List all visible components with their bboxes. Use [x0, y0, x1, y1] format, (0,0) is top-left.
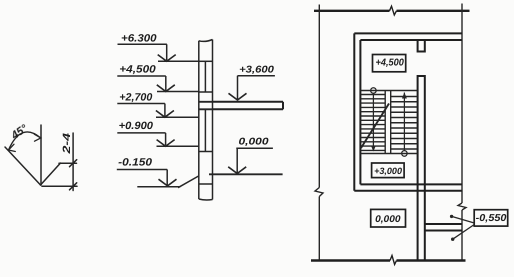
svg-text:+0.900: +0.900 [119, 120, 154, 132]
top wall outer line [354, 32, 462, 34]
arc arrowhead right [34, 134, 41, 141]
svg-text:0,000: 0,000 [239, 137, 270, 148]
stair direction line right flight [402, 93, 408, 157]
svg-text:+4,500: +4,500 [376, 58, 405, 69]
level mark +2.700 [117, 104, 199, 118]
wall tick at first floor [199, 151, 213, 153]
svg-text:-0,550: -0,550 [476, 213, 507, 224]
wall bottom cut edge [199, 199, 213, 200]
level mark +6.300 [118, 44, 199, 61]
top wall inner line [360, 39, 462, 41]
left wall outer line [353, 33, 355, 190]
building bottom boundary line [311, 259, 466, 261]
dimension oblique tick top [70, 160, 77, 167]
svg-text:0,000: 0,000 [375, 214, 401, 225]
left break zigzag [315, 188, 323, 197]
right break zigzag [458, 203, 466, 210]
stair direction line left flight [371, 88, 377, 151]
label box -0,550 [474, 210, 508, 226]
dimension line 2-4 [72, 133, 74, 191]
dimension oblique tick bottom [70, 183, 77, 190]
building top boundary line [314, 10, 470, 12]
corridor wall lower line [425, 230, 462, 232]
svg-text:+6.300: +6.300 [121, 33, 157, 45]
wall tick at slab top [199, 101, 213, 103]
ground cut diagonal at wall base [178, 176, 199, 188]
stair flights [360, 91, 417, 154]
direction arrow down [371, 146, 376, 152]
left symbol top extension tick [59, 162, 77, 164]
bottom wall inner line [360, 183, 462, 185]
svg-text:+4,500: +4,500 [119, 64, 156, 76]
level mark +4.500 [117, 76, 199, 92]
wall right line [212, 40, 214, 200]
label box 0,000 [371, 209, 406, 227]
right wall below door [418, 76, 425, 260]
wall top cut edge [199, 40, 213, 42]
flight top landing edge [360, 90, 417, 92]
wall tick at +6.300 level [199, 60, 213, 62]
arc arrowhead left [9, 144, 16, 151]
level mark +3.600 [229, 76, 275, 100]
stairwell walls [354, 33, 462, 260]
wall left line [198, 41, 200, 199]
bottom break zigzag [390, 256, 397, 265]
level mark +0.900 [117, 133, 199, 146]
direction arrow up [402, 93, 407, 99]
corridor wall upper line [425, 223, 462, 225]
left symbol vertical leader [40, 125, 42, 185]
wall middle line lower [204, 109, 206, 151]
right flight left edge [390, 91, 392, 154]
label box +4,500 [373, 55, 406, 72]
svg-text:-0.150: -0.150 [118, 157, 152, 169]
label box +3,000 [372, 163, 405, 178]
level mark 0.000 [209, 148, 283, 174]
45 degree arc [9, 132, 41, 150]
floor slab right of wall [213, 102, 284, 110]
wall tick at +4.500 level [199, 91, 213, 93]
leader line lower for -0,550 [453, 225, 475, 240]
level mark -0.150 [117, 170, 181, 187]
left flight right edge [384, 91, 386, 154]
svg-text:+3,600: +3,600 [239, 64, 274, 75]
wall middle line upper [204, 61, 206, 92]
left flight treads [360, 95, 385, 151]
bottom wall outer line [354, 190, 462, 192]
left symbol right 45-deg arm [41, 163, 61, 185]
wall tick at slab bottom [199, 108, 213, 110]
left symbol long 45-deg arm [5, 147, 41, 185]
leader line upper for -0,550 [450, 215, 474, 241]
left symbol horizontal level line [42, 185, 77, 187]
top break zigzag [390, 6, 397, 15]
building left boundary line [315, 5, 323, 261]
right flight treads [391, 97, 418, 150]
svg-text:2-4: 2-4 [61, 133, 73, 155]
door stub wall at top [418, 40, 425, 52]
building right boundary line [458, 4, 466, 261]
svg-text:+3,000: +3,000 [374, 166, 403, 176]
flight break diagonal [361, 104, 389, 149]
svg-text:+2,700: +2,700 [119, 91, 152, 103]
flight bottom landing edge [360, 153, 417, 155]
wall tick at base [199, 183, 213, 185]
left wall inner line [359, 40, 361, 184]
